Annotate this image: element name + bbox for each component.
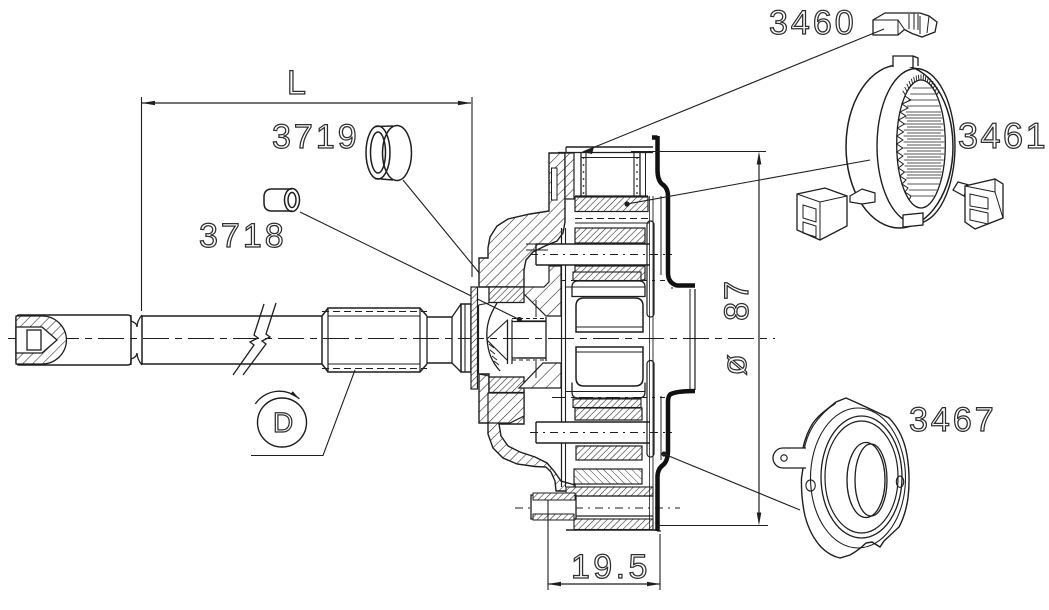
sleeve collar top — [572, 281, 645, 297]
sleeve band long — [566, 487, 653, 496]
svg-text:3718: 3718 — [199, 217, 287, 255]
dim phi87 line — [758, 161, 760, 515]
cover small hole left — [806, 480, 815, 491]
bottom band — [574, 519, 653, 530]
dimension L line — [142, 102, 471, 104]
break symbol — [243, 303, 276, 375]
hidden line — [575, 218, 650, 220]
svg-text:3460: 3460 — [769, 4, 857, 42]
bushing 3718 — [264, 189, 292, 211]
dimension L left extension line — [141, 97, 143, 311]
cover ring 2 — [825, 421, 898, 533]
bearing band upper 2 — [575, 266, 645, 280]
tulip curve — [487, 303, 500, 371]
lower cage block — [489, 377, 524, 393]
cover hole outer — [847, 443, 885, 518]
svg-text:L: L — [287, 64, 306, 102]
snap bar upper — [647, 221, 654, 317]
svg-text:3719: 3719 — [272, 118, 360, 156]
taper — [452, 304, 461, 372]
svg-text:ø: ø — [716, 355, 754, 376]
svg-text:3467: 3467 — [909, 401, 997, 439]
seal washer — [471, 287, 478, 389]
svg-text:87: 87 — [718, 279, 756, 321]
sleeve collar bottom — [572, 383, 645, 399]
axle end — [545, 317, 547, 361]
brake drum thick profile — [652, 136, 695, 286]
bell interior hatch upper — [524, 266, 561, 316]
right neck — [426, 316, 428, 364]
spline block lower — [576, 347, 643, 386]
snap bar lower — [647, 361, 654, 458]
washer 3461 spline ring — [897, 80, 946, 208]
clip right — [965, 179, 1003, 229]
threaded section — [322, 308, 427, 372]
svg-text:3461: 3461 — [958, 115, 1048, 156]
cover fold line — [804, 403, 836, 450]
spacer band — [574, 469, 642, 484]
cover tab — [773, 448, 806, 468]
shaft body — [142, 315, 322, 317]
collar ring — [461, 304, 471, 372]
shaft left end — [16, 315, 131, 365]
snap ring lower — [573, 399, 641, 408]
lower sleeve — [575, 495, 653, 497]
drum lip thin lines — [694, 289, 696, 390]
washer teeth top — [903, 75, 940, 96]
bottom left block — [531, 495, 576, 519]
cover small hole right — [896, 476, 903, 487]
cover ring 1 — [821, 416, 902, 538]
shaft neck groove — [131, 315, 137, 365]
svg-text:D: D — [273, 407, 293, 438]
ring nut band — [575, 197, 648, 212]
spline block upper — [576, 298, 643, 332]
dim 19.5 right extension — [659, 534, 661, 590]
dim phi87 top extension — [631, 151, 766, 153]
bore left verticals — [561, 228, 563, 244]
washer 3461 outer — [846, 65, 953, 228]
snap ring upper — [573, 272, 641, 281]
clip left — [797, 188, 847, 240]
stud knurl dots — [583, 157, 585, 159]
bell step lines — [526, 243, 561, 245]
dim phi87 bottom extension — [657, 525, 768, 527]
outer race upper wall — [479, 153, 565, 287]
leader 3460 — [583, 29, 885, 152]
D circle — [258, 398, 307, 447]
spline zigzag — [897, 96, 911, 200]
leader 3461 — [627, 160, 870, 204]
bore edges — [507, 320, 509, 365]
wheel stud upper vertical — [580, 153, 582, 196]
outer race lower wall — [479, 374, 575, 491]
drum hat lines — [660, 196, 662, 275]
washer bottom tab — [903, 213, 923, 227]
outer race top wall — [565, 153, 574, 199]
cover 3467 outline — [801, 398, 909, 558]
svg-text:19.5: 19.5 — [571, 548, 651, 586]
upper wall slot — [552, 168, 558, 200]
cage ticks — [489, 344, 499, 365]
snap ring 3719 — [383, 126, 412, 181]
bearing band upper — [575, 228, 645, 243]
funnel box — [478, 305, 480, 374]
hub top edge — [566, 146, 653, 148]
wheel stud upper — [536, 244, 650, 265]
bearing band lower 1 — [575, 408, 642, 420]
dimension L right extension line — [471, 97, 473, 277]
wheel stud lower — [536, 422, 650, 443]
dim 19.5 line — [548, 583, 660, 585]
cone lines — [487, 320, 508, 361]
leader 3718 — [300, 212, 519, 320]
washer right lug — [953, 182, 969, 196]
washer top tab — [893, 56, 918, 67]
bearing band lower 2 — [576, 446, 642, 460]
thread hidden lines — [322, 311, 427, 313]
leader 3719 — [403, 180, 497, 295]
main centerline — [8, 338, 775, 340]
lower wall block — [488, 393, 524, 423]
bell interior hatch lower — [519, 363, 561, 388]
washer left lug — [850, 189, 875, 204]
upper cage block — [489, 287, 524, 303]
spline lines — [904, 88, 945, 196]
dim 19.5 left extension — [547, 500, 549, 590]
leader 3467 — [664, 454, 800, 510]
D leader — [251, 370, 355, 456]
rotation arc — [255, 391, 299, 404]
cover ring 0 — [811, 408, 906, 548]
cover hole inner — [855, 444, 887, 516]
clip 3460 — [873, 13, 937, 37]
